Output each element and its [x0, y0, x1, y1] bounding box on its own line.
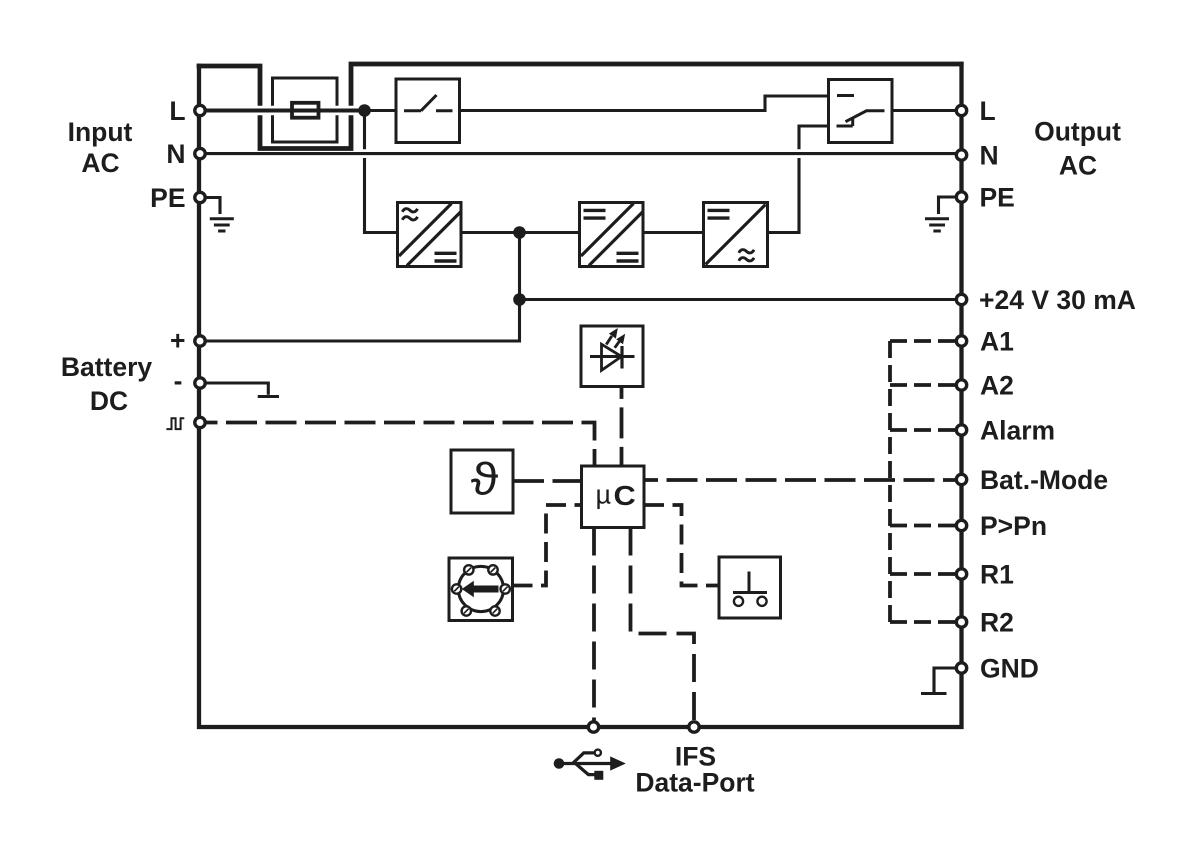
wire relay bottom feed from converter 3, gap at N	[768, 126, 829, 233]
terminal GND	[956, 663, 966, 673]
svg-text:GND: GND	[980, 653, 1039, 683]
dashed stub R1	[890, 572, 955, 576]
wire converter2 to converter3	[643, 231, 704, 234]
terminal PE input	[195, 192, 205, 202]
temperature sensor box	[451, 450, 513, 513]
svg-text:A1: A1	[980, 327, 1014, 357]
converter U3 diagonal	[706, 205, 766, 265]
svg-text:N: N	[980, 141, 999, 171]
fuse outer box with gaps at L wire	[273, 78, 338, 142]
dashed line microcontroller to IFS port 1	[592, 528, 596, 722]
converter U2 box	[580, 203, 644, 267]
svg-text:Alarm: Alarm	[980, 416, 1055, 446]
rotary switch dial	[458, 566, 503, 611]
dashed line microcontroller to push button	[644, 505, 719, 586]
dashed stub Alarm	[890, 428, 955, 432]
svg-text:AC: AC	[1059, 151, 1097, 181]
terminal N output	[956, 150, 966, 160]
converter U3 DC mark top	[708, 210, 730, 218]
rotary switch screw slots	[454, 568, 507, 614]
push button box	[719, 557, 781, 618]
converter U1 box	[398, 203, 462, 267]
dashed line microcontroller to IFS port 2	[631, 528, 695, 722]
wire relay to output L	[892, 109, 962, 112]
LED emission arrows	[606, 336, 612, 345]
converter U2 DC mark top	[584, 210, 606, 218]
svg-text:+24 V 30 mA: +24 V 30 mA	[979, 285, 1136, 315]
dashed stub P>Pn	[890, 524, 955, 528]
svg-text:AC: AC	[81, 148, 119, 178]
svg-text:Battery: Battery	[61, 352, 153, 382]
terminal battery -	[195, 378, 205, 388]
terminal R2	[956, 617, 966, 627]
left PE ground symbol	[207, 198, 221, 215]
junction dot converter output	[513, 226, 526, 239]
svg-text:L: L	[169, 96, 185, 126]
relay box	[829, 80, 893, 143]
terminal +24V	[956, 294, 966, 304]
LED box	[581, 326, 643, 387]
svg-text:ϑ: ϑ	[471, 455, 499, 505]
terminal L output	[956, 105, 966, 115]
wire +24V output	[520, 298, 962, 301]
terminal battery +	[195, 336, 205, 346]
svg-text:Output: Output	[1034, 117, 1121, 147]
converter U3 AC mark	[739, 250, 754, 261]
wire L dot to switch	[365, 109, 397, 112]
terminal L input	[195, 105, 205, 115]
svg-text:PE: PE	[980, 183, 1015, 213]
rotary switch arrow	[474, 586, 499, 593]
terminal R1	[956, 569, 966, 579]
dashed line LED to microcontroller	[620, 387, 624, 467]
terminal IFS port 1	[588, 722, 598, 732]
terminal IFS port 2	[689, 722, 699, 732]
battery pulse input glyph	[166, 418, 184, 429]
LED arrowheads	[609, 328, 618, 339]
svg-text:C: C	[614, 480, 636, 511]
terminal N input	[195, 148, 205, 158]
wire L feed to converter: vertical with gap at N	[365, 111, 398, 233]
push button symbol	[733, 572, 767, 593]
wire N line	[200, 152, 962, 155]
dashed bracket vertical A1-R2	[888, 341, 892, 622]
terminal A2	[956, 380, 966, 390]
svg-text:R1: R1	[980, 560, 1014, 590]
dashed line microcontroller to Bat.-Mode terminal	[644, 478, 955, 482]
converter U2 DC mark bottom	[617, 253, 639, 261]
converter U1 diagonals	[399, 204, 461, 266]
converter U1 DC mark	[435, 253, 457, 261]
dashed control line battery pulse input to microcontroller	[207, 423, 595, 467]
USB symbol	[559, 753, 612, 775]
enclosure outline with notch, gaps at L-wire crossings	[197, 64, 964, 149]
LED D1 symbol	[590, 355, 635, 358]
wire converter1 to converter2	[461, 231, 580, 234]
junction dot +24V tap	[513, 293, 526, 306]
svg-text:Bat.-Mode: Bat.-Mode	[980, 465, 1108, 495]
svg-text:L: L	[980, 96, 996, 126]
rotary switch screws	[452, 565, 510, 616]
rotary switch box	[449, 558, 513, 621]
wire battery + riser	[200, 233, 520, 342]
svg-text:µ: µ	[596, 480, 612, 510]
junction dot L after fuse	[358, 104, 371, 117]
terminal A1	[956, 336, 966, 346]
dashed line temperature sensor to microcontroller	[513, 479, 582, 483]
terminal circles group	[195, 105, 967, 732]
enclosure right bus, bottom, left bus	[199, 62, 962, 727]
converter U3 box	[704, 203, 768, 267]
svg-text:Data-Port: Data-Port	[635, 768, 754, 798]
right PE ground symbol	[939, 197, 956, 214]
wire L line input through fuse (thick)	[200, 109, 365, 113]
terminal battery pulse	[195, 417, 205, 427]
svg-text:Input: Input	[68, 117, 133, 147]
dashed line rotary switch to microcontroller	[513, 505, 582, 586]
terminal Bat.-Mode	[956, 474, 966, 484]
switch S1 box	[396, 79, 460, 143]
wire switch to relay with step up	[460, 96, 829, 111]
terminal Alarm	[956, 425, 966, 435]
svg-text:P>Pn: P>Pn	[980, 511, 1047, 541]
svg-text:DC: DC	[90, 386, 128, 416]
dashed stub A2	[890, 383, 955, 387]
svg-text:-: -	[174, 366, 183, 396]
terminal PE output	[956, 192, 966, 202]
battery minus chassis ground symbol	[207, 383, 269, 395]
converter U2 diagonals	[581, 204, 643, 266]
dashed stub A1	[890, 339, 955, 343]
svg-text:PE: PE	[150, 183, 185, 213]
svg-text:A2: A2	[980, 371, 1014, 401]
switch S1 contact symbol	[404, 95, 453, 111]
converter U1 AC mark	[402, 209, 417, 220]
terminal P>Pn	[956, 520, 966, 530]
svg-text:N: N	[166, 139, 185, 169]
svg-text:+: +	[170, 326, 185, 356]
fuse F1 symbol	[292, 103, 319, 118]
microcontroller box	[582, 466, 645, 528]
svg-text:R2: R2	[980, 608, 1014, 638]
dashed stub R2	[890, 620, 955, 624]
GND chassis ground symbol	[934, 668, 955, 692]
relay changeover contact symbol	[837, 96, 885, 127]
